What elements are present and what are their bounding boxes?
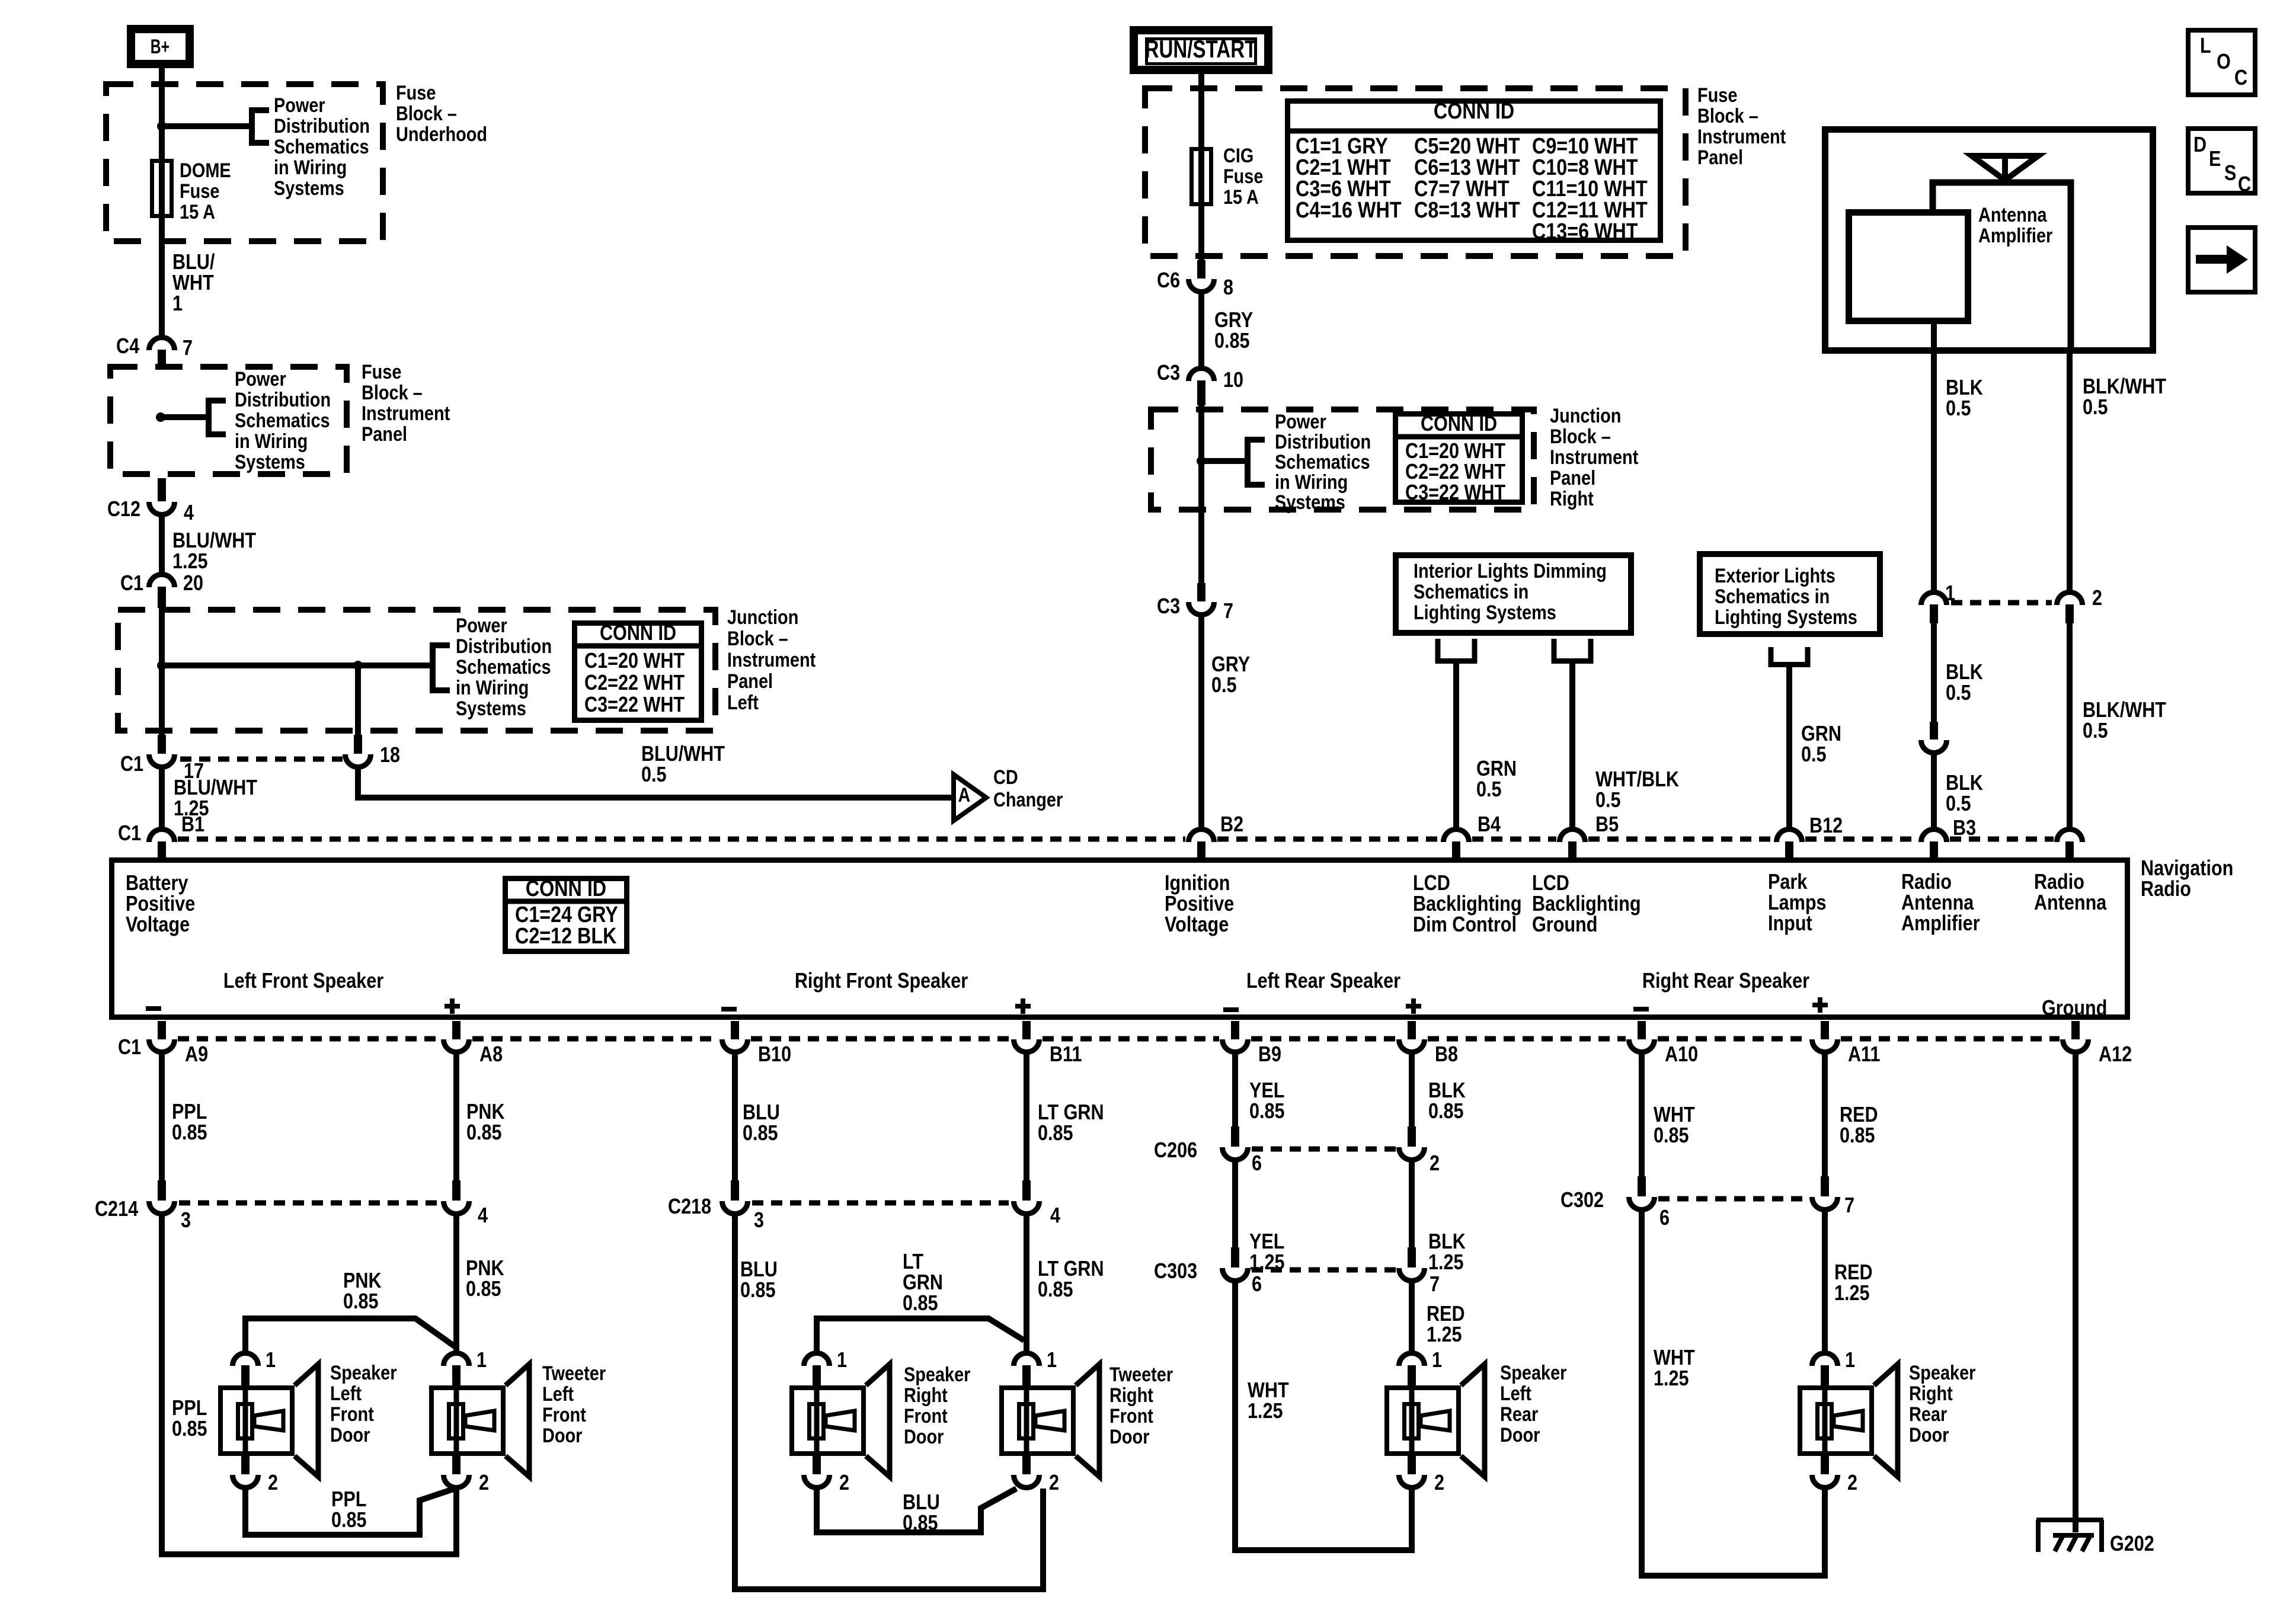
- svg-text:B9: B9: [1258, 1043, 1281, 1067]
- svg-text:S: S: [2224, 162, 2236, 185]
- svg-text:0.5: 0.5: [1946, 681, 1971, 705]
- svg-text:LCD: LCD: [1532, 872, 1569, 895]
- svg-text:BLK: BLK: [1428, 1079, 1466, 1103]
- svg-text:Schematics: Schematics: [456, 655, 551, 678]
- svg-text:C214: C214: [95, 1198, 139, 1221]
- svg-text:Panel: Panel: [362, 422, 407, 446]
- svg-text:C1: C1: [118, 1036, 141, 1060]
- svg-text:C1: C1: [120, 572, 143, 596]
- svg-text:D: D: [2193, 133, 2207, 157]
- svg-text:0.85: 0.85: [740, 1279, 776, 1302]
- svg-text:CIG: CIG: [1223, 144, 1253, 167]
- svg-text:1: 1: [172, 292, 183, 316]
- svg-text:C12: C12: [107, 498, 140, 521]
- svg-text:18: 18: [380, 744, 400, 767]
- svg-text:Schematics in: Schematics in: [1715, 585, 1830, 608]
- svg-text:15 A: 15 A: [180, 200, 215, 223]
- svg-text:0.85: 0.85: [1428, 1100, 1464, 1124]
- svg-text:Voltage: Voltage: [126, 913, 190, 937]
- svg-text:1.25: 1.25: [1248, 1400, 1283, 1423]
- svg-text:Radio: Radio: [2034, 870, 2084, 894]
- svg-text:1: 1: [837, 1349, 847, 1372]
- svg-text:in Wiring: in Wiring: [274, 156, 347, 179]
- svg-text:C1: C1: [120, 753, 143, 776]
- svg-text:Rear: Rear: [1909, 1403, 1947, 1426]
- svg-text:0.5: 0.5: [1946, 792, 1971, 816]
- svg-text:Power: Power: [274, 94, 325, 117]
- svg-text:BLK/WHT: BLK/WHT: [2083, 699, 2167, 722]
- svg-text:2: 2: [1430, 1152, 1440, 1176]
- svg-text:Block –: Block –: [1697, 104, 1758, 127]
- svg-text:Fuse: Fuse: [396, 81, 436, 104]
- svg-text:LT GRN: LT GRN: [1038, 1101, 1104, 1125]
- svg-text:1: 1: [1945, 582, 1955, 606]
- svg-text:RED: RED: [1834, 1261, 1873, 1285]
- svg-text:Tweeter: Tweeter: [1109, 1363, 1173, 1386]
- svg-text:Panel: Panel: [1550, 466, 1595, 489]
- svg-text:CD: CD: [993, 766, 1018, 789]
- svg-text:C1=20 WHT: C1=20 WHT: [584, 649, 685, 673]
- svg-text:PPL: PPL: [172, 1100, 207, 1124]
- svg-text:0.85: 0.85: [1654, 1124, 1689, 1148]
- svg-text:A11: A11: [1848, 1043, 1880, 1067]
- svg-text:Left: Left: [727, 691, 759, 714]
- svg-text:BLU: BLU: [743, 1101, 780, 1125]
- svg-text:B+: B+: [151, 35, 170, 58]
- svg-text:WHT: WHT: [172, 271, 214, 295]
- svg-text:LT GRN: LT GRN: [1038, 1257, 1104, 1281]
- svg-text:Left: Left: [542, 1382, 574, 1406]
- svg-text:Systems: Systems: [235, 450, 305, 473]
- svg-text:0.85: 0.85: [172, 1121, 207, 1145]
- svg-text:3: 3: [181, 1209, 191, 1233]
- svg-text:GRN: GRN: [1801, 722, 1841, 746]
- svg-text:Door: Door: [1109, 1425, 1149, 1448]
- svg-text:0.5: 0.5: [1476, 778, 1502, 802]
- svg-text:Systems: Systems: [456, 697, 526, 720]
- svg-text:Front: Front: [542, 1403, 586, 1426]
- svg-text:Tweeter: Tweeter: [542, 1362, 606, 1385]
- svg-text:YEL: YEL: [1249, 1230, 1284, 1254]
- svg-text:Lamps: Lamps: [1768, 891, 1827, 915]
- svg-text:BLK: BLK: [1946, 661, 1983, 684]
- svg-text:2: 2: [1049, 1471, 1059, 1495]
- svg-text:Positive: Positive: [126, 892, 195, 916]
- svg-text:6: 6: [1659, 1206, 1670, 1230]
- svg-text:4: 4: [1050, 1204, 1060, 1228]
- svg-text:Right: Right: [1550, 487, 1594, 510]
- svg-text:PNK: PNK: [466, 1257, 504, 1281]
- svg-text:0.5: 0.5: [1211, 674, 1237, 697]
- svg-text:Front: Front: [904, 1404, 948, 1427]
- svg-text:4: 4: [478, 1204, 488, 1228]
- svg-text:Door: Door: [1909, 1423, 1949, 1446]
- svg-text:Schematics in: Schematics in: [1414, 580, 1528, 603]
- svg-text:0.85: 0.85: [1038, 1278, 1073, 1302]
- svg-text:PNK: PNK: [343, 1269, 382, 1293]
- svg-text:Right: Right: [1909, 1382, 1953, 1405]
- svg-text:A9: A9: [185, 1043, 208, 1067]
- svg-text:Park: Park: [1768, 870, 1808, 894]
- svg-text:0.85: 0.85: [343, 1290, 379, 1314]
- svg-text:Block –: Block –: [727, 627, 788, 650]
- svg-text:E: E: [2209, 148, 2221, 171]
- svg-text:BLK/WHT: BLK/WHT: [2083, 375, 2167, 399]
- svg-text:Antenna: Antenna: [1901, 891, 1974, 915]
- svg-text:in Wiring: in Wiring: [456, 676, 529, 699]
- svg-text:Interior Lights Dimming: Interior Lights Dimming: [1414, 559, 1607, 582]
- svg-text:CONN ID: CONN ID: [1421, 412, 1497, 436]
- svg-text:Power: Power: [1275, 410, 1326, 433]
- svg-text:1.25: 1.25: [1428, 1251, 1464, 1275]
- svg-text:Speaker: Speaker: [330, 1361, 396, 1384]
- svg-text:Input: Input: [1768, 912, 1812, 936]
- svg-text:C2=12 BLK: C2=12 BLK: [515, 924, 617, 949]
- svg-text:Underhood: Underhood: [396, 123, 487, 146]
- svg-text:A12: A12: [2099, 1043, 2132, 1067]
- svg-text:Fuse: Fuse: [362, 360, 401, 383]
- svg-text:Ground: Ground: [2042, 997, 2107, 1020]
- svg-text:Lighting Systems: Lighting Systems: [1414, 601, 1556, 624]
- svg-text:B12: B12: [1809, 814, 1843, 838]
- svg-text:Block –: Block –: [362, 381, 423, 404]
- svg-text:Backlighting: Backlighting: [1532, 892, 1641, 916]
- svg-text:0.85: 0.85: [1249, 1100, 1285, 1124]
- svg-text:1: 1: [266, 1349, 276, 1372]
- svg-text:2: 2: [2092, 587, 2102, 610]
- svg-text:Left Rear Speaker: Left Rear Speaker: [1246, 969, 1400, 993]
- svg-text:CONN ID: CONN ID: [1434, 99, 1514, 124]
- svg-text:Changer: Changer: [993, 788, 1063, 811]
- svg-text:Fuse: Fuse: [1223, 165, 1263, 188]
- svg-text:Lighting Systems: Lighting Systems: [1715, 606, 1857, 629]
- svg-text:7: 7: [1844, 1194, 1854, 1218]
- svg-text:Right: Right: [1109, 1384, 1153, 1407]
- svg-text:Left Front Speaker: Left Front Speaker: [223, 969, 383, 993]
- svg-text:Fuse: Fuse: [180, 180, 219, 203]
- svg-text:Right Rear Speaker: Right Rear Speaker: [1642, 969, 1809, 993]
- svg-text:Radio: Radio: [1901, 870, 1952, 894]
- svg-text:LT: LT: [903, 1250, 924, 1274]
- svg-text:8: 8: [1223, 276, 1233, 300]
- svg-text:CONN ID: CONN ID: [526, 876, 606, 901]
- svg-text:Schematics: Schematics: [1275, 450, 1370, 473]
- svg-text:Ignition: Ignition: [1165, 872, 1230, 895]
- svg-text:GRY: GRY: [1211, 653, 1250, 677]
- svg-text:Systems: Systems: [274, 177, 344, 200]
- svg-text:G202: G202: [2110, 1532, 2154, 1556]
- svg-text:0.5: 0.5: [1595, 789, 1621, 812]
- svg-text:C4=16 WHT: C4=16 WHT: [1296, 198, 1402, 223]
- svg-text:C3=22 WHT: C3=22 WHT: [1405, 481, 1506, 505]
- svg-text:Positive: Positive: [1165, 892, 1234, 916]
- svg-text:Door: Door: [330, 1423, 370, 1446]
- svg-text:O: O: [2217, 50, 2231, 74]
- svg-text:Distribution: Distribution: [235, 388, 331, 411]
- svg-text:0.85: 0.85: [1840, 1124, 1875, 1148]
- svg-text:0.85: 0.85: [466, 1121, 502, 1145]
- svg-text:Ground: Ground: [1532, 913, 1597, 937]
- svg-text:RED: RED: [1427, 1302, 1465, 1326]
- svg-text:1: 1: [477, 1349, 487, 1372]
- svg-text:RUN/START: RUN/START: [1145, 36, 1257, 63]
- svg-text:0.5: 0.5: [2083, 396, 2108, 420]
- svg-text:C206: C206: [1154, 1139, 1197, 1163]
- svg-text:0.85: 0.85: [331, 1509, 367, 1532]
- svg-text:7: 7: [1223, 600, 1233, 623]
- svg-text:C4: C4: [116, 335, 139, 359]
- svg-text:1.25: 1.25: [1834, 1282, 1870, 1305]
- svg-text:GRN: GRN: [1476, 757, 1517, 781]
- svg-text:Left: Left: [1500, 1382, 1531, 1405]
- svg-text:Systems: Systems: [1275, 491, 1345, 514]
- svg-text:Front: Front: [1109, 1404, 1153, 1427]
- svg-text:B8: B8: [1435, 1043, 1458, 1067]
- svg-text:A: A: [958, 783, 971, 806]
- svg-text:Instrument: Instrument: [1697, 125, 1786, 148]
- svg-text:Voltage: Voltage: [1165, 913, 1229, 937]
- svg-text:Junction: Junction: [727, 606, 798, 629]
- svg-text:C302: C302: [1560, 1189, 1604, 1212]
- svg-text:Schematics: Schematics: [235, 409, 330, 432]
- svg-text:BLU/WHT: BLU/WHT: [174, 776, 258, 800]
- svg-text:Speaker: Speaker: [904, 1363, 970, 1386]
- svg-text:Panel: Panel: [727, 670, 773, 693]
- svg-text:Speaker: Speaker: [1500, 1361, 1566, 1384]
- svg-text:6: 6: [1252, 1273, 1262, 1297]
- svg-text:BLU/: BLU/: [172, 251, 215, 274]
- svg-text:0.85: 0.85: [903, 1512, 938, 1535]
- svg-text:BLU/WHT: BLU/WHT: [172, 529, 257, 553]
- svg-text:RED: RED: [1840, 1103, 1878, 1127]
- svg-text:1: 1: [1845, 1349, 1855, 1372]
- svg-text:Instrument: Instrument: [362, 402, 450, 425]
- svg-text:1.25: 1.25: [1654, 1367, 1689, 1391]
- svg-text:C13=6 WHT: C13=6 WHT: [1532, 219, 1638, 244]
- svg-text:0.85: 0.85: [1214, 329, 1250, 353]
- svg-text:Panel: Panel: [1697, 146, 1743, 169]
- svg-text:BLK: BLK: [1946, 376, 1983, 400]
- svg-text:7: 7: [183, 337, 193, 360]
- svg-text:Antenna: Antenna: [1978, 203, 2047, 226]
- svg-text:15 A: 15 A: [1223, 185, 1259, 209]
- svg-text:2: 2: [1847, 1471, 1857, 1495]
- svg-text:B4: B4: [1478, 813, 1501, 837]
- svg-text:C3: C3: [1157, 361, 1180, 385]
- svg-text:2: 2: [1434, 1471, 1444, 1495]
- svg-text:0.85: 0.85: [172, 1417, 207, 1441]
- svg-text:Instrument: Instrument: [1550, 446, 1639, 469]
- svg-text:4: 4: [184, 501, 194, 525]
- svg-text:GRY: GRY: [1214, 309, 1253, 332]
- svg-text:2: 2: [479, 1471, 489, 1495]
- svg-text:Amplifier: Amplifier: [1978, 224, 2052, 247]
- svg-text:PPL: PPL: [172, 1397, 207, 1420]
- svg-text:BLU/WHT: BLU/WHT: [641, 742, 725, 766]
- svg-text:C: C: [2234, 66, 2247, 90]
- svg-text:C: C: [2238, 173, 2251, 197]
- svg-text:Block –: Block –: [1550, 425, 1611, 448]
- svg-text:Navigation: Navigation: [2141, 857, 2233, 881]
- svg-text:L: L: [2200, 34, 2211, 58]
- svg-text:0.85: 0.85: [466, 1278, 501, 1301]
- svg-text:0.85: 0.85: [1038, 1122, 1073, 1145]
- svg-text:C2=22 WHT: C2=22 WHT: [1405, 460, 1506, 484]
- svg-text:B2: B2: [1220, 813, 1243, 837]
- svg-text:Rear: Rear: [1500, 1403, 1538, 1426]
- svg-text:in Wiring: in Wiring: [1275, 470, 1348, 494]
- svg-text:20: 20: [183, 572, 203, 596]
- svg-text:WHT: WHT: [1654, 1103, 1695, 1127]
- svg-text:3: 3: [754, 1209, 764, 1233]
- svg-text:1.25: 1.25: [1249, 1251, 1285, 1275]
- svg-text:Right: Right: [904, 1384, 948, 1407]
- svg-text:LCD: LCD: [1413, 872, 1450, 895]
- svg-text:0.85: 0.85: [903, 1292, 938, 1315]
- svg-text:Dim Control: Dim Control: [1413, 913, 1517, 937]
- svg-text:C218: C218: [668, 1195, 711, 1219]
- svg-text:C1: C1: [118, 822, 141, 846]
- svg-text:C303: C303: [1154, 1260, 1197, 1283]
- svg-text:Backlighting: Backlighting: [1413, 892, 1522, 916]
- svg-text:PPL: PPL: [331, 1488, 366, 1512]
- svg-text:Door: Door: [904, 1425, 944, 1448]
- svg-text:B11: B11: [1050, 1043, 1082, 1067]
- svg-text:WHT/BLK: WHT/BLK: [1595, 768, 1679, 792]
- svg-text:C3: C3: [1157, 595, 1180, 619]
- svg-text:0.85: 0.85: [743, 1122, 778, 1145]
- svg-text:2: 2: [839, 1471, 849, 1495]
- svg-text:6: 6: [1252, 1152, 1262, 1176]
- svg-text:Schematics: Schematics: [274, 135, 369, 158]
- svg-text:1.25: 1.25: [1427, 1323, 1462, 1347]
- svg-text:Distribution: Distribution: [274, 114, 370, 137]
- svg-text:0.5: 0.5: [1801, 743, 1827, 767]
- svg-text:YEL: YEL: [1249, 1079, 1284, 1103]
- svg-text:Speaker: Speaker: [1909, 1361, 1975, 1384]
- svg-text:Distribution: Distribution: [456, 635, 552, 658]
- svg-text:Radio: Radio: [2141, 878, 2191, 901]
- svg-text:B3: B3: [1953, 817, 1976, 840]
- svg-text:0.5: 0.5: [1946, 397, 1971, 421]
- svg-text:7: 7: [1430, 1273, 1440, 1297]
- svg-text:CONN ID: CONN ID: [600, 622, 676, 645]
- svg-text:Fuse: Fuse: [1697, 84, 1737, 107]
- svg-text:Antenna: Antenna: [2034, 891, 2107, 915]
- svg-text:10: 10: [1223, 369, 1243, 392]
- svg-text:Instrument: Instrument: [727, 648, 816, 671]
- svg-text:0.5: 0.5: [2083, 719, 2108, 743]
- svg-text:GRN: GRN: [903, 1271, 943, 1295]
- svg-text:A8: A8: [479, 1043, 503, 1067]
- svg-text:Block –: Block –: [396, 102, 457, 125]
- svg-text:Left: Left: [330, 1382, 362, 1405]
- svg-text:0.5: 0.5: [641, 763, 667, 787]
- svg-text:Distribution: Distribution: [1275, 430, 1371, 453]
- svg-text:Front: Front: [330, 1403, 374, 1426]
- svg-text:A10: A10: [1665, 1043, 1698, 1067]
- svg-text:WHT: WHT: [1248, 1379, 1289, 1403]
- svg-text:B10: B10: [758, 1043, 791, 1067]
- svg-text:in Wiring: in Wiring: [235, 430, 308, 453]
- svg-text:PNK: PNK: [466, 1100, 505, 1124]
- svg-text:Power: Power: [456, 614, 507, 637]
- svg-text:2: 2: [268, 1471, 278, 1495]
- svg-text:C1=20 WHT: C1=20 WHT: [1405, 440, 1506, 463]
- svg-text:Power: Power: [235, 367, 286, 391]
- svg-text:Right Front Speaker: Right Front Speaker: [795, 969, 968, 993]
- svg-text:C8=13 WHT: C8=13 WHT: [1414, 198, 1520, 223]
- svg-text:DOME: DOME: [180, 159, 231, 182]
- svg-text:B5: B5: [1595, 813, 1619, 837]
- svg-text:1: 1: [1432, 1349, 1442, 1372]
- svg-text:BLU: BLU: [740, 1258, 778, 1282]
- svg-text:WHT: WHT: [1654, 1346, 1695, 1370]
- svg-text:C3=22 WHT: C3=22 WHT: [584, 693, 685, 717]
- svg-text:Door: Door: [1500, 1423, 1540, 1446]
- svg-text:Door: Door: [542, 1424, 582, 1447]
- svg-text:Junction: Junction: [1550, 404, 1621, 427]
- svg-text:Exterior Lights: Exterior Lights: [1715, 564, 1835, 587]
- svg-text:B1: B1: [181, 813, 204, 837]
- svg-text:C2=22 WHT: C2=22 WHT: [584, 671, 685, 695]
- svg-text:BLK: BLK: [1428, 1230, 1466, 1254]
- svg-text:BLK: BLK: [1946, 772, 1983, 795]
- svg-text:1: 1: [1047, 1349, 1057, 1372]
- svg-text:Battery: Battery: [126, 872, 188, 895]
- svg-text:1.25: 1.25: [172, 550, 208, 574]
- svg-text:Amplifier: Amplifier: [1901, 912, 1980, 936]
- svg-text:C6: C6: [1157, 269, 1180, 293]
- svg-text:BLU: BLU: [903, 1491, 940, 1515]
